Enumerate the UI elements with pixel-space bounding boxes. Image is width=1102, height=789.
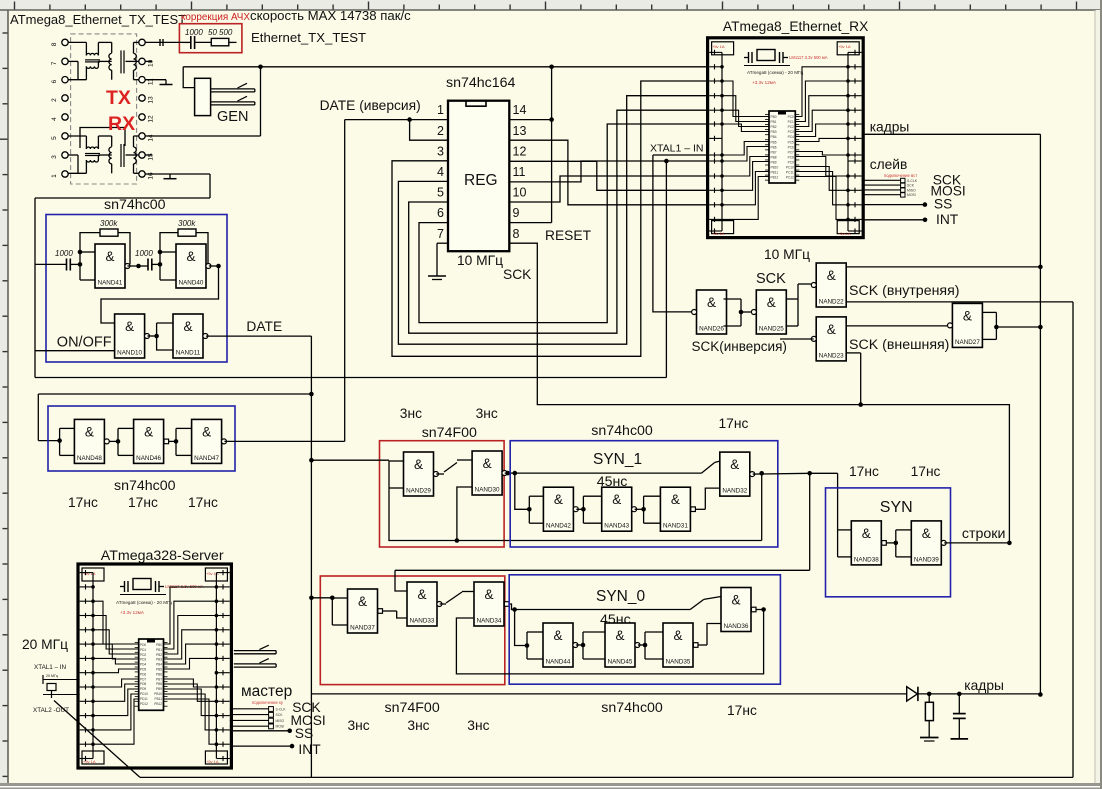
svg-text:NAND42: NAND42 <box>546 523 571 530</box>
svg-text:ATmega8 (схема) - 20 МГц: ATmega8 (схема) - 20 МГц <box>747 70 804 75</box>
NAND gate NAND31 <box>660 487 695 531</box>
svg-text:PC1: PC1 <box>788 120 794 124</box>
svg-text:NAND26: NAND26 <box>699 326 724 333</box>
NAND31 bracket <box>644 495 661 497</box>
SYN_0 switch diagonal <box>690 599 704 609</box>
RX right pin stubs <box>848 51 862 53</box>
svg-text:PB5: PB5 <box>156 668 162 672</box>
NAND34 out to SYN_0 <box>509 604 515 610</box>
svg-text:SYN_0: SYN_0 <box>596 588 645 605</box>
svg-text:DATE: DATE <box>246 319 282 334</box>
SCK loop rail right <box>1072 302 1074 778</box>
svg-text:300k: 300k <box>100 219 118 228</box>
svg-text:SCK: SCK <box>756 271 786 287</box>
svg-text:4: 4 <box>51 117 58 121</box>
NAND gate NAND37 <box>348 589 383 633</box>
NAND45 bracket <box>583 631 605 633</box>
wire pin10 stub <box>145 60 152 62</box>
svg-text:PD10: PD10 <box>140 692 148 696</box>
top ruler strip <box>0 0 1102 10</box>
svg-text:ATmega8_Ethernet_TX_TEST: ATmega8_Ethernet_TX_TEST <box>10 12 186 27</box>
NAND29 input bracket <box>389 460 404 462</box>
svg-text:коррекция АЧХ: коррекция АЧХ <box>181 12 250 23</box>
svg-text:3нс: 3нс <box>467 718 489 733</box>
resistor 300k #2 <box>178 229 196 236</box>
svg-text:+5v 1A: +5v 1A <box>838 44 851 49</box>
svg-text:NAND48: NAND48 <box>77 455 102 462</box>
transformer module dashed box <box>71 34 137 184</box>
svg-text:3нс: 3нс <box>407 718 429 733</box>
svg-text:Ethernet_TX_TEST: Ethernet_TX_TEST <box>251 30 366 45</box>
NAND gate NAND46 <box>134 419 169 463</box>
svg-text:11: 11 <box>513 165 526 179</box>
svg-text:SCK (внешняя): SCK (внешняя) <box>849 337 949 353</box>
left ruler strip <box>0 0 8 789</box>
diagonal wire to server XTAL <box>54 701 140 778</box>
svg-text:10: 10 <box>513 186 527 200</box>
svg-text:17нс: 17нс <box>719 416 749 431</box>
svg-text:&: & <box>105 249 114 264</box>
svg-text:NAND33: NAND33 <box>410 618 435 625</box>
svg-text:SYN_1: SYN_1 <box>593 451 642 468</box>
svg-text:MISO: MISO <box>276 719 285 723</box>
svg-text:12: 12 <box>148 115 155 123</box>
MCU outer box <box>78 564 231 768</box>
svg-text:PC8: PC8 <box>788 155 794 159</box>
svg-text:&: & <box>554 492 563 507</box>
server left bus <box>92 573 94 759</box>
svg-text:PB5: PB5 <box>771 140 777 144</box>
svg-text:&: & <box>827 322 836 337</box>
bottom long rail <box>140 776 1073 778</box>
NAND27 bracket to kadry rail <box>996 326 1040 328</box>
right window edge <box>1094 10 1096 783</box>
NAND45 out <box>638 644 645 646</box>
svg-text:подключение вст: подключение вст <box>884 173 917 178</box>
svg-text:PD6: PD6 <box>140 672 146 676</box>
svg-text:SYN: SYN <box>880 499 913 516</box>
svg-text:PB12: PB12 <box>154 702 162 706</box>
svg-text:NAND11: NAND11 <box>176 350 201 357</box>
svg-text:S-CLK: S-CLK <box>907 179 918 183</box>
wire NAND25 out to NAND26 <box>741 311 751 313</box>
svg-text:PD2: PD2 <box>140 653 146 657</box>
svg-text:PB0: PB0 <box>156 643 162 647</box>
svg-text:NAND39: NAND39 <box>914 556 939 563</box>
transformer primary winding <box>109 53 112 70</box>
svg-text:MISO: MISO <box>907 188 916 192</box>
svg-text:20 МГц: 20 МГц <box>22 637 68 652</box>
wire RX pin stub 15 <box>145 154 152 156</box>
red correction box <box>179 24 242 53</box>
server right bus <box>215 573 217 759</box>
NAND41 output wire <box>127 265 138 267</box>
NAND43 bracket <box>583 495 601 497</box>
svg-text:PD1: PD1 <box>140 648 146 652</box>
pin8 RESET-SCK wire <box>509 243 1009 543</box>
svg-text:PB3: PB3 <box>771 130 777 134</box>
NAND gate NAND27 <box>948 303 983 347</box>
svg-text:8: 8 <box>51 42 58 46</box>
svg-text:RX: RX <box>108 113 135 135</box>
NAND43 out <box>635 508 644 510</box>
RX left pin stubs <box>709 51 722 53</box>
svg-text:6: 6 <box>51 80 58 84</box>
svg-text:PB9: PB9 <box>156 687 162 691</box>
blue box sn74hc00 #2 <box>48 406 235 471</box>
svg-text:&: & <box>414 457 423 472</box>
wire NAND46 out <box>169 440 176 442</box>
svg-text:3: 3 <box>51 155 58 159</box>
svg-text:8: 8 <box>513 227 520 241</box>
svg-text:sn74hc164: sn74hc164 <box>446 75 516 91</box>
svg-text:&: & <box>963 308 972 323</box>
svg-text:&: & <box>730 457 739 472</box>
NAND42 bracket <box>529 495 543 497</box>
svg-text:NAND10: NAND10 <box>117 350 142 357</box>
resistor 300k #1 <box>100 229 118 236</box>
svg-text:NAND46: NAND46 <box>136 455 161 462</box>
svg-text:скорость MAX 14738 пак/с: скорость MAX 14738 пак/с <box>250 8 411 23</box>
transformer core <box>120 144 122 167</box>
svg-text:подключение ку: подключение ку <box>252 700 284 705</box>
RX crystal circuit <box>757 50 775 61</box>
server chip to right bus wires <box>164 587 217 644</box>
NAND31 out to NAND32 <box>695 508 705 510</box>
svg-text:15: 15 <box>148 153 155 161</box>
svg-text:REG: REG <box>464 172 498 189</box>
secondary center tap <box>126 60 139 62</box>
NAND23 output stub <box>780 338 814 340</box>
svg-text:PD11: PD11 <box>140 697 148 701</box>
svg-text:&: & <box>183 319 192 334</box>
svg-text:16: 16 <box>148 172 155 180</box>
NAND23 input top from NAND27 <box>846 325 947 327</box>
svg-text:кадры: кадры <box>964 678 1004 693</box>
rail above SYN_0 <box>395 569 810 571</box>
NAND gate NAND10 <box>115 314 150 358</box>
transformer wiring <box>68 135 86 137</box>
GEN connector body <box>195 78 211 115</box>
svg-text:XTAL1 – IN: XTAL1 – IN <box>650 143 704 155</box>
NAND41 input ties <box>80 251 95 253</box>
svg-text:PC3: PC3 <box>788 130 794 134</box>
svg-text:GEN: GEN <box>217 109 248 125</box>
svg-text:ON/OFF: ON/OFF <box>57 335 112 351</box>
svg-text:&: & <box>202 424 211 439</box>
svg-text:&: & <box>553 628 562 643</box>
DATE-inv wire to pin1 <box>345 119 448 121</box>
server inner chip <box>139 639 164 710</box>
svg-text:NAND35: NAND35 <box>666 659 691 666</box>
NAND22 input rails <box>846 266 1040 268</box>
NAND23 input bottom to RESET rail <box>846 352 861 354</box>
NAND27 input bracket <box>982 311 996 313</box>
svg-text:+3.3v 12мА: +3.3v 12мА <box>120 610 145 615</box>
svg-text:7: 7 <box>51 61 58 65</box>
REG pin7 ground <box>437 242 448 244</box>
transformer secondary winding <box>134 53 137 70</box>
REG chip body <box>448 101 509 252</box>
pin14 wire <box>509 119 551 121</box>
REG pin5 loop <box>409 110 708 333</box>
NAND38 out <box>886 542 896 544</box>
svg-text:NAND31: NAND31 <box>663 523 688 530</box>
GEN pin 1 switch stroke <box>238 83 248 88</box>
choke core lines <box>85 59 100 61</box>
svg-text:NAND37: NAND37 <box>350 625 375 632</box>
svg-text:&: & <box>615 628 624 643</box>
NAND gate NAND45 <box>605 623 640 667</box>
svg-text:1: 1 <box>51 174 58 178</box>
svg-text:PC9: PC9 <box>788 160 794 164</box>
svg-text:PD5: PD5 <box>140 668 146 672</box>
blue box SYN_1 <box>510 441 778 547</box>
server bus to chip wires <box>93 601 139 644</box>
wire pin8 to correction box <box>145 41 183 43</box>
svg-text:ATmega8 (схема) - 20 МГц: ATmega8 (схема) - 20 МГц <box>116 600 173 605</box>
NAND40 output wire <box>209 265 219 267</box>
slave INT wire <box>862 219 925 221</box>
svg-text:&: & <box>673 628 682 643</box>
svg-text:MOSI: MOSI <box>907 193 916 197</box>
svg-text:PB4: PB4 <box>156 663 162 667</box>
NAND gate NAND11 <box>173 314 208 358</box>
svg-text:кадры: кадры <box>870 120 910 135</box>
svg-text:NAND41: NAND41 <box>98 280 123 287</box>
svg-text:PC7: PC7 <box>788 150 794 154</box>
pin11 wire to RX <box>509 161 708 182</box>
NAND gate NAND29 <box>404 452 439 496</box>
kadry vertical rail <box>1039 134 1041 694</box>
svg-text:PB3: PB3 <box>156 658 162 662</box>
svg-text:XTAL1 – IN: XTAL1 – IN <box>34 664 67 671</box>
svg-text:&: & <box>358 594 367 609</box>
svg-text:+5v 1A: +5v 1A <box>83 759 96 764</box>
svg-text:+5v 1A: +5v 1A <box>712 231 725 236</box>
NAND gate NAND22 <box>811 263 846 307</box>
wire NAND48 input <box>38 440 59 442</box>
svg-text:PD3: PD3 <box>140 658 146 662</box>
svg-text:PB10: PB10 <box>154 692 162 696</box>
REG pin4 loop <box>398 96 708 345</box>
NAND32 out <box>753 472 810 475</box>
svg-text:PB2: PB2 <box>771 125 777 129</box>
svg-text:7: 7 <box>437 227 444 241</box>
svg-text:NAND23: NAND23 <box>819 352 844 359</box>
svg-text:PC0: PC0 <box>788 115 794 119</box>
NAND gate NAND36 <box>721 588 756 632</box>
red box sn74F00 #1 <box>380 441 505 547</box>
NAND gate NAND23 <box>811 317 846 361</box>
wire RX pin14 to GEN net <box>145 135 260 137</box>
NAND48 input bracket <box>59 428 61 455</box>
wire y394 to blue box2 <box>38 393 311 395</box>
svg-text:ATmega8_Ethernet_RX: ATmega8_Ethernet_RX <box>723 19 868 34</box>
svg-text:SCK (внутреняя): SCK (внутреняя) <box>849 283 960 299</box>
wire into NAND29 <box>311 459 389 461</box>
svg-text:слейв: слейв <box>870 157 908 172</box>
NAND gate NAND40 <box>176 244 211 288</box>
NAND42 out <box>576 508 583 510</box>
svg-text:17нс: 17нс <box>128 495 158 510</box>
SYN input corner <box>810 472 838 474</box>
svg-text:3: 3 <box>437 144 444 158</box>
svg-text:SS: SS <box>295 726 313 741</box>
svg-text:мастер: мастер <box>241 683 292 700</box>
transformer wiring <box>68 41 86 43</box>
svg-text:10: 10 <box>148 59 155 67</box>
NAND gate NAND42 <box>543 487 578 531</box>
NAND gate NAND39 <box>911 521 946 565</box>
pin12 wire to RX <box>509 161 708 190</box>
MCU corner boxes <box>712 42 734 55</box>
svg-text:1000: 1000 <box>135 249 153 258</box>
transformer left pin circles <box>62 39 68 45</box>
svg-text:PB11: PB11 <box>154 697 162 701</box>
NAND35 bracket <box>645 631 663 633</box>
svg-text:SCK: SCK <box>503 267 532 282</box>
svg-text:PD4: PD4 <box>140 663 146 667</box>
svg-text:5: 5 <box>437 186 444 200</box>
svg-text:DATE (иверсия): DATE (иверсия) <box>320 98 421 113</box>
svg-text:17нс: 17нс <box>911 464 941 479</box>
svg-text:NAND29: NAND29 <box>406 488 431 495</box>
svg-text:&: & <box>731 593 740 608</box>
wire pin11 to ground <box>145 79 166 81</box>
NAND gate NAND26 <box>692 290 727 334</box>
filter cap <box>958 694 960 714</box>
svg-text:&: & <box>827 268 836 283</box>
svg-text:SS: SS <box>934 197 952 212</box>
svg-text:&: & <box>125 319 134 334</box>
svg-text:INT: INT <box>298 742 321 757</box>
diode <box>907 687 918 701</box>
svg-text:17нс: 17нс <box>727 703 757 718</box>
svg-text:PB12: PB12 <box>771 176 779 180</box>
svg-text:sn74F00: sn74F00 <box>385 700 440 716</box>
NAND46 input bracket <box>117 428 119 455</box>
svg-text:PB2: PB2 <box>156 653 162 657</box>
NAND36 out <box>756 609 764 611</box>
SYN input to SYN_0 rail link <box>809 473 811 570</box>
svg-text:3нс: 3нс <box>400 406 422 421</box>
NAND gate NAND25 <box>751 290 786 334</box>
secondary center tap <box>126 154 139 156</box>
svg-text:&: & <box>417 587 426 602</box>
NAND gate NAND30 <box>472 451 507 495</box>
kadry rail corner down <box>1039 693 1041 696</box>
svg-text:PB0: PB0 <box>771 115 777 119</box>
svg-text:PC4: PC4 <box>788 135 794 139</box>
DATE vertical rail <box>310 336 312 777</box>
ruler ticks top <box>14 2 16 10</box>
svg-text:LM1117 3.3v 500 мА: LM1117 3.3v 500 мА <box>789 55 828 60</box>
svg-text:PB11: PB11 <box>771 171 779 175</box>
svg-text:4: 4 <box>437 165 444 179</box>
svg-text:&: & <box>862 526 871 541</box>
NAND37 input <box>311 597 332 599</box>
svg-text:sn74hc00: sn74hc00 <box>601 700 663 716</box>
NAND26 input bracket right <box>724 298 742 300</box>
svg-text:PB9: PB9 <box>771 160 777 164</box>
SYN_1 switch diagonal <box>702 462 715 473</box>
primary lower leads <box>68 60 78 62</box>
svg-text:строки: строки <box>962 526 1006 542</box>
svg-text:PB1: PB1 <box>771 120 777 124</box>
SYN_1 input drop <box>515 473 530 509</box>
pull resistor <box>928 694 930 702</box>
cap ground <box>951 738 969 740</box>
SYN_0 top rail <box>515 609 691 611</box>
svg-text:NAND25: NAND25 <box>759 326 784 333</box>
cap C in correction box <box>183 41 190 43</box>
svg-text:17нс: 17нс <box>849 464 879 479</box>
transformer primary winding <box>109 147 112 164</box>
server right pin stubs <box>216 572 229 574</box>
kadry bottom wire <box>311 693 906 695</box>
primary lower leads <box>68 154 78 156</box>
NAND47 output to DATE-inv riser <box>224 440 344 442</box>
svg-text:PD0: PD0 <box>140 643 146 647</box>
svg-text:PC10: PC10 <box>786 166 794 170</box>
svg-text:NAND32: NAND32 <box>722 488 747 495</box>
feedback rail red box1 <box>389 488 762 541</box>
GEN output rail to RX block <box>183 66 708 68</box>
svg-text:NAND27: NAND27 <box>955 339 980 346</box>
transformer right pin circles <box>139 39 145 45</box>
XTAL riser from pin11 jog <box>665 161 667 378</box>
svg-text:+5v 1A: +5v 1A <box>83 571 96 576</box>
RX bus to chip wires <box>722 81 769 117</box>
svg-text:NAND40: NAND40 <box>179 280 204 287</box>
GEN wire to top rail <box>183 67 194 88</box>
svg-text:+5v 1A: +5v 1A <box>838 231 851 236</box>
DATE output wire <box>206 335 312 337</box>
svg-text:PB7: PB7 <box>771 150 777 154</box>
svg-text:PB1: PB1 <box>156 648 162 652</box>
svg-text:PB10: PB10 <box>771 166 779 170</box>
red box sn74F00 #2 <box>320 576 505 685</box>
svg-text:ATmega328-Server: ATmega328-Server <box>101 548 224 564</box>
svg-text:PB7: PB7 <box>156 677 162 681</box>
svg-text:11: 11 <box>148 78 155 85</box>
svg-text:6: 6 <box>437 206 444 220</box>
svg-text:sn74F00: sn74F00 <box>422 425 477 441</box>
REG pin14 RESET rail vertical <box>551 67 553 223</box>
svg-text:13: 13 <box>513 124 527 138</box>
XTAL1 long rail y377 <box>35 377 666 379</box>
NAND38 input ties <box>838 529 852 531</box>
svg-text:&: & <box>483 456 492 471</box>
bottom gray band <box>0 783 1102 789</box>
svg-text:1000: 1000 <box>55 249 73 258</box>
master connector <box>269 707 274 712</box>
NAND33 out diag to NAND34 <box>440 603 446 605</box>
svg-text:&: & <box>707 295 716 310</box>
blue box SYN_0 <box>509 575 780 684</box>
svg-text:PC12: PC12 <box>786 176 794 180</box>
NAND gate NAND44 <box>543 623 578 667</box>
svg-text:PD12: PD12 <box>140 702 148 706</box>
svg-text:12: 12 <box>513 144 527 158</box>
GEN pin bar 2 <box>211 101 255 103</box>
SYN_0 feedback <box>456 610 763 674</box>
REG pin3 loop <box>392 81 708 356</box>
blue box SYN <box>826 488 951 597</box>
svg-text:10 МГц: 10 МГц <box>457 253 503 268</box>
svg-text:9: 9 <box>513 206 520 220</box>
